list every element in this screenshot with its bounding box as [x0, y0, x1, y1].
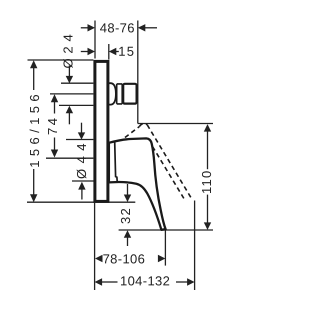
- svg-text:78-106: 78-106: [103, 251, 146, 266]
- plate bottom extension line: [27, 201, 135, 203]
- plate top extension line: [28, 59, 94, 61]
- svg-text:15: 15: [118, 44, 135, 59]
- svg-text:156/156: 156/156: [27, 90, 42, 168]
- stem centre extension line: [50, 93, 93, 95]
- raised-handle top extension line: [138, 123, 213, 125]
- dimension 32: [124, 184, 131, 246]
- dimension Ø24: [66, 66, 73, 125]
- svg-text:Ø44: Ø44: [74, 138, 89, 179]
- hub bottom extension line: [72, 180, 94, 182]
- svg-text:48-76: 48-76: [100, 20, 135, 35]
- svg-text:104-132: 104-132: [120, 273, 170, 288]
- dashed-tip extension stub: [194, 201, 196, 291]
- dimension 74: [51, 94, 58, 157]
- dimension 78-106: [95, 255, 165, 262]
- hub centre extension line: [46, 157, 93, 159]
- dimension 104-132: [95, 278, 195, 285]
- stem knob: [123, 84, 136, 104]
- svg-text:110: 110: [199, 170, 214, 194]
- wall plate: [95, 61, 108, 201]
- dimension 110: [204, 124, 211, 230]
- knob face extension line: [137, 21, 139, 124]
- stem ring: [117, 84, 123, 104]
- svg-text:Ø24: Ø24: [60, 30, 75, 69]
- dimension 48-76: [81, 24, 157, 31]
- stem dome: [109, 83, 116, 104]
- handle (solid, lowered): [109, 138, 166, 229]
- hub top extension line: [66, 139, 93, 141]
- handle tip level extension line: [119, 229, 213, 231]
- stem top extension line: [61, 82, 93, 84]
- lever dashed (raised position): [119, 123, 193, 200]
- wall extension line lower: [94, 203, 96, 290]
- dimension Ø44: [78, 123, 86, 200]
- dimension 15: [81, 48, 119, 55]
- dimension 156/156: [30, 60, 37, 202]
- plate front extension line: [108, 44, 110, 60]
- stem bottom extension line: [59, 104, 93, 106]
- handle hub inner edge: [115, 142, 118, 182]
- handle tip extension line: [164, 230, 166, 266]
- svg-text:74: 74: [45, 115, 60, 135]
- svg-text:32: 32: [118, 207, 133, 224]
- wall extension line upper: [94, 21, 96, 59]
